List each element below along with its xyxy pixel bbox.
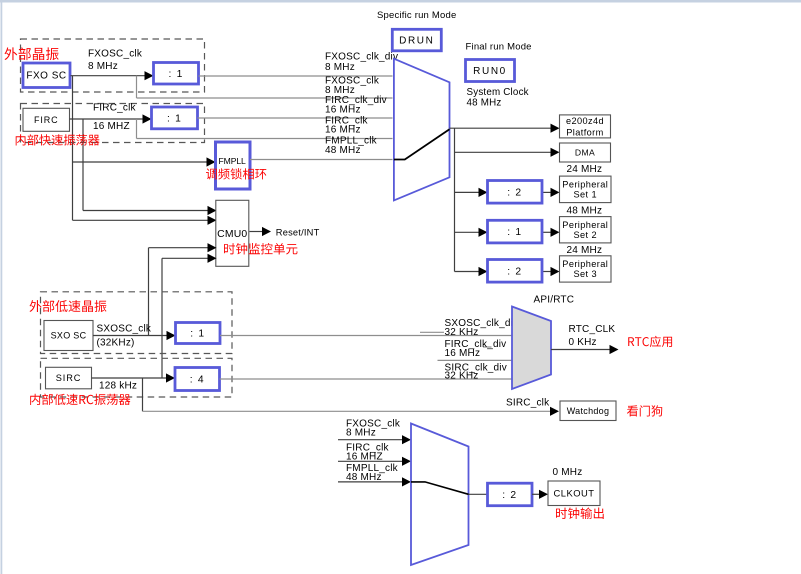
wire CMU0 to Reset/INT bbox=[250, 231, 264, 233]
wire branch to divider :2 (set3) bbox=[455, 271, 480, 273]
svg-text:System Clock: System Clock bbox=[467, 87, 529, 98]
svg-text:Peripheral: Peripheral bbox=[562, 220, 608, 230]
svg-text:CLKOUT: CLKOUT bbox=[553, 487, 594, 498]
block e200z4d Platform bbox=[560, 115, 611, 138]
stray label underline 32 KHz bbox=[420, 331, 444, 333]
mux selection path (FMPLL_clk selected) bbox=[411, 482, 469, 494]
svg-text:API/RTC: API/RTC bbox=[534, 295, 575, 306]
mux CLKOUT selector bbox=[411, 424, 469, 566]
label 时钟输出 (clock output) bbox=[556, 508, 604, 520]
wire to DMA bbox=[455, 151, 552, 153]
svg-text:: 1: : 1 bbox=[190, 329, 205, 340]
pll FMPLL bbox=[216, 142, 251, 189]
block Watchdog bbox=[560, 401, 616, 421]
dashed group box: external oscillator bbox=[21, 39, 205, 92]
wire system clock to e200z4d bbox=[450, 127, 552, 129]
wire divider to Peripheral Set 1 bbox=[542, 191, 552, 193]
label 外部低速晶振 (external slow crystal) bbox=[30, 300, 107, 312]
block Peripheral Set 1 bbox=[560, 176, 612, 203]
svg-text:Set 1: Set 1 bbox=[574, 189, 597, 199]
wire SXOSC to CMU0 input 3 bbox=[149, 247, 209, 249]
node FIRC bypass junction bbox=[136, 119, 138, 139]
divider :1 for FXOSC bbox=[154, 63, 199, 85]
mode box DRUN bbox=[392, 29, 441, 51]
wire SIRC to CMU0 input 4 bbox=[162, 257, 209, 259]
svg-text:FIRC_clk: FIRC_clk bbox=[93, 103, 137, 114]
wire branch to divider :1 (set2) bbox=[455, 231, 480, 233]
wire FIRC_clk_div stub to API mux bbox=[438, 359, 512, 361]
mux selection path (FMPLL_clk selected) bbox=[394, 129, 450, 159]
svg-text:: 1: : 1 bbox=[507, 227, 522, 238]
wire distribution bus vertical bbox=[454, 128, 456, 271]
svg-text:48 MHz: 48 MHz bbox=[325, 145, 361, 156]
wire FXOSC_clk into clkout mux bbox=[338, 439, 404, 441]
svg-text:FXO SC: FXO SC bbox=[26, 71, 66, 82]
divider :4 for SIRC bbox=[175, 368, 220, 391]
svg-text:Watchdog: Watchdog bbox=[567, 406, 610, 416]
svg-text:DRUN: DRUN bbox=[399, 35, 434, 46]
wire FIRC output bbox=[70, 118, 145, 120]
node FXOSC bypass junction bbox=[136, 76, 138, 98]
wire SIRC_clk drop to watchdog bbox=[142, 378, 144, 411]
svg-text:(32KHz): (32KHz) bbox=[97, 338, 135, 349]
wire FXOSC_clk_div to mux bbox=[199, 75, 393, 77]
svg-text:32 KHz: 32 KHz bbox=[445, 327, 479, 338]
mux system clock selector bbox=[394, 59, 450, 201]
dashed group box: slow external oscillator bbox=[41, 292, 233, 354]
oscillator FXOSC bbox=[23, 63, 70, 88]
wire SIRC_clk_div to API mux bbox=[220, 378, 512, 380]
block DMA bbox=[560, 143, 611, 162]
svg-text:: 2: : 2 bbox=[502, 490, 517, 501]
svg-text:SXO SC: SXO SC bbox=[51, 331, 87, 341]
label 时钟监控单元 (clock monitor unit) bbox=[224, 243, 298, 255]
divider :2 for CLKOUT bbox=[488, 483, 533, 506]
oscillator SIRC bbox=[46, 367, 92, 389]
window left border bbox=[1, 0, 3, 574]
wire divider to CLKOUT pad bbox=[532, 493, 540, 495]
wire FIRC_clk into clkout mux bbox=[338, 460, 404, 462]
svg-text:: 1: : 1 bbox=[168, 69, 183, 80]
wire SXOSC output bbox=[93, 335, 168, 337]
svg-text:48 MHz: 48 MHz bbox=[567, 206, 603, 217]
svg-text:DMA: DMA bbox=[575, 147, 595, 157]
wire FXOSC feed down bbox=[72, 76, 74, 221]
wire FXOSC to CMU0 input 2 bbox=[73, 219, 209, 221]
label 看门狗 (watchdog) bbox=[627, 405, 662, 416]
wire divider to Peripheral Set 2 bbox=[542, 231, 552, 233]
svg-text:FIRC: FIRC bbox=[34, 115, 59, 125]
svg-text:24 MHz: 24 MHz bbox=[567, 164, 603, 175]
svg-text:0 MHz: 0 MHz bbox=[553, 467, 583, 478]
svg-text:: 2: : 2 bbox=[507, 266, 522, 277]
svg-text:32 KHz: 32 KHz bbox=[445, 370, 479, 381]
dashed group box: slow internal RC bbox=[41, 358, 233, 397]
svg-text:Specific run Mode: Specific run Mode bbox=[377, 10, 456, 21]
wire FMPLL_clk output to mux bbox=[250, 159, 393, 161]
wire FIRC to CMU0 input 1 bbox=[83, 210, 209, 212]
svg-text:16 MHz: 16 MHz bbox=[325, 125, 361, 136]
divider :1 for FIRC bbox=[152, 107, 198, 129]
wire FXOSC_clk bypass to mux bbox=[137, 97, 393, 99]
label 调频锁相环 (FM PLL) bbox=[206, 168, 266, 179]
block Peripheral Set 2 bbox=[560, 217, 612, 243]
wire FXOSC output bbox=[71, 75, 147, 77]
svg-text:Peripheral: Peripheral bbox=[562, 179, 608, 189]
stray label underline 16 MHz bbox=[483, 346, 492, 348]
svg-text:24 MHz: 24 MHz bbox=[567, 245, 603, 256]
wire RTC_CLK output bbox=[551, 349, 610, 351]
svg-text:0 KHz: 0 KHz bbox=[569, 337, 597, 348]
wire SXOSC_clk_div to API mux bbox=[220, 335, 512, 337]
wire SXOSC feed up bbox=[148, 248, 150, 336]
oscillator FIRC bbox=[23, 108, 70, 131]
svg-text:SXOSC_clk: SXOSC_clk bbox=[97, 324, 152, 335]
wire SIRC feed up bbox=[161, 258, 163, 378]
svg-text:CMU0: CMU0 bbox=[217, 229, 247, 240]
window top border bbox=[0, 0, 801, 3]
svg-text:FMPLL: FMPLL bbox=[219, 156, 247, 166]
svg-text:SIRC_clk: SIRC_clk bbox=[506, 398, 550, 409]
label 内部低速RC振荡器 (internal slow RC oscillator) bbox=[30, 394, 130, 406]
wire FXOSC to FMPLL bbox=[73, 161, 208, 163]
svg-text:128 kHz: 128 kHz bbox=[99, 381, 137, 392]
svg-text:: 4: : 4 bbox=[190, 375, 205, 386]
divider :1 for Peripheral Set 2 bbox=[488, 220, 543, 243]
svg-text:Peripheral: Peripheral bbox=[562, 259, 608, 269]
svg-text:SIRC: SIRC bbox=[56, 373, 82, 383]
svg-text:RTC_CLK: RTC_CLK bbox=[569, 324, 616, 335]
svg-text:16 MHz: 16 MHz bbox=[445, 348, 481, 359]
divider :2 for Peripheral Set 3 bbox=[488, 260, 543, 283]
svg-text:8 MHz: 8 MHz bbox=[346, 428, 376, 439]
mode box RUN0 bbox=[466, 60, 515, 82]
svg-text:FXOSC_clk: FXOSC_clk bbox=[88, 49, 143, 60]
svg-text:48 MHz: 48 MHz bbox=[467, 98, 502, 109]
svg-text:: 1: : 1 bbox=[167, 113, 182, 124]
oscillator SXOSC bbox=[44, 321, 93, 351]
svg-text:Platform: Platform bbox=[566, 127, 603, 137]
label 内部快速振荡器 (internal fast oscillator) bbox=[16, 134, 100, 145]
svg-text:Final run Mode: Final run Mode bbox=[466, 42, 532, 53]
svg-text:16 MHZ: 16 MHZ bbox=[93, 121, 130, 132]
svg-text:Reset/INT: Reset/INT bbox=[276, 227, 320, 237]
svg-text:RUN0: RUN0 bbox=[473, 66, 507, 77]
svg-text:16 MHz: 16 MHz bbox=[325, 105, 361, 116]
block CLKOUT bbox=[548, 481, 600, 506]
svg-text:Set 3: Set 3 bbox=[574, 269, 597, 279]
svg-text:FXOSC_clk_div: FXOSC_clk_div bbox=[325, 52, 398, 63]
wire SIRC_clk to Watchdog bbox=[143, 410, 552, 412]
wire FIRC_clk_div to mux bbox=[198, 117, 393, 119]
wire FIRC feed down to CMU0 bbox=[82, 119, 84, 211]
wire divider to Peripheral Set 3 bbox=[542, 271, 552, 273]
svg-text:Set 2: Set 2 bbox=[574, 230, 597, 240]
wire SIRC output bbox=[92, 377, 168, 379]
svg-text:48 MHz: 48 MHz bbox=[346, 472, 382, 483]
mux API/RTC selector bbox=[512, 307, 551, 390]
divider :1 for SXOSC bbox=[176, 323, 221, 344]
svg-text:: 2: : 2 bbox=[507, 187, 522, 198]
wire mux to divider :2 bbox=[469, 493, 488, 495]
wire FIRC_clk bypass to mux bbox=[137, 138, 393, 140]
label RTC应用 (RTC application) bbox=[628, 336, 672, 347]
monitor CMU0 bbox=[216, 200, 249, 266]
label 外部晶振 (external crystal) bbox=[5, 47, 59, 60]
svg-text:8 MHz: 8 MHz bbox=[325, 62, 355, 73]
wire FMPLL_clk into clkout mux bbox=[338, 481, 404, 483]
block Peripheral Set 3 bbox=[560, 256, 612, 282]
svg-text:8 MHz: 8 MHz bbox=[88, 61, 118, 72]
divider :2 for Peripheral Set 1 bbox=[488, 181, 543, 204]
wire branch to divider :2 (set1) bbox=[455, 191, 480, 193]
dashed group box: fast internal RC bbox=[21, 104, 205, 143]
svg-text:e200z4d: e200z4d bbox=[566, 116, 604, 126]
